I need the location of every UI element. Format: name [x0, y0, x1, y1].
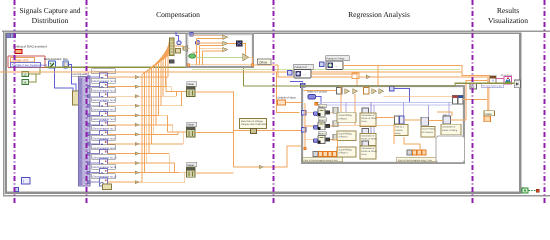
wire split-signals to icon no.5 — [90, 114, 100, 116]
wire row no.9 continue — [140, 153, 150, 155]
case wire h2 — [197, 38, 223, 40]
svg-text:Outputs after Calibration: Outputs after Calibration — [241, 123, 268, 126]
wire row no.5 continue — [140, 114, 159, 116]
inter-section bus v1 — [277, 72, 300, 112]
label Points in Y Axis — [326, 56, 350, 61]
bus drop no.11 — [179, 171, 181, 173]
Points in Y input — [320, 62, 325, 67]
case arrowhead 1 — [223, 35, 228, 39]
wire electromagnet no.4 output — [108, 105, 136, 107]
Row 3 blue glyph — [314, 139, 318, 143]
wire row no.1 continue — [140, 76, 168, 78]
wire split-signals to icon no.8 — [90, 143, 100, 145]
wire default value — [286, 102, 303, 104]
wire electromagnet no.1 output — [108, 76, 136, 78]
riser wire no.1 — [167, 58, 169, 78]
main loop frame bottom edge — [5, 192, 521, 194]
section divider line 4 — [472, 0, 474, 205]
svg-text:of Columns: of Columns — [422, 131, 434, 134]
default value constant — [278, 100, 286, 105]
riser wire no.6 — [155, 65, 157, 125]
bus feed no.7 — [178, 131, 187, 133]
outer frame left edge — [3, 31, 5, 197]
green constant 1 — [22, 72, 29, 77]
bus feed no.6 — [173, 131, 187, 133]
label Raw Data of Voltage Outputs after Calibration — [240, 119, 268, 129]
wire electromagnet no.2 output — [108, 86, 136, 88]
label Curve Fitting of Columns — [421, 127, 435, 138]
fan diagonal no.10 — [147, 52, 170, 72]
label Calculation of Points on Fitting Curve 2 — [360, 134, 377, 146]
coercion arrowhead no.4 — [135, 104, 140, 107]
Points in Y block — [326, 61, 343, 70]
convert-dynamic-data icon no.4 — [100, 102, 108, 110]
order of function constant — [308, 95, 316, 100]
wire DAQ to split signals blue — [55, 68, 74, 92]
lavender drop x374 — [373, 105, 375, 140]
Row 2 fit node — [333, 121, 338, 127]
svg-text:Order of Function: Order of Function — [307, 91, 328, 94]
coercion arrowhead no.12 — [135, 180, 140, 183]
wire points-in-y out — [343, 66, 462, 76]
case dark icon — [236, 41, 242, 47]
case wire arrows to icon — [228, 42, 236, 44]
wire row no.2 continue — [140, 86, 166, 88]
label Electromagnet no.1 — [92, 69, 116, 74]
bus wire right no.1 — [140, 76, 167, 78]
DAQmx task wire overlay — [244, 83, 515, 86]
wire mean 2 out — [195, 132, 234, 134]
riser wire no.12 — [141, 75, 143, 183]
coercion arrowhead no.10 — [135, 161, 140, 164]
wire points-in-x out — [311, 74, 357, 86]
convert-dynamic-data icon no.10 — [100, 159, 108, 167]
svg-text:Points in X: Points in X — [295, 66, 308, 69]
riser wire no.7 — [153, 67, 155, 135]
split signals input icon — [73, 91, 80, 105]
case wire h1 — [192, 35, 223, 37]
wire split-signals to icon no.1 — [90, 76, 100, 78]
wire split-signals to icon no.2 — [90, 86, 100, 88]
top blue node — [390, 87, 395, 92]
raw data node icon — [251, 129, 257, 134]
case out wire — [249, 57, 278, 65]
orange junction node — [315, 102, 318, 105]
wire Row 3 out — [330, 139, 333, 141]
bus drop no.1 — [165, 77, 167, 91]
bus wire right no.6 — [140, 124, 173, 126]
case blue glyph — [196, 40, 200, 44]
wire top blue — [394, 89, 410, 104]
wire array X up — [333, 140, 338, 152]
bus feed no.11 — [180, 171, 187, 173]
Row 1 blue glyph — [314, 112, 318, 116]
reg wire h mid2 — [376, 117, 395, 119]
Row 3 icon — [318, 136, 325, 144]
riser wire no.10 — [146, 71, 148, 163]
svg-text:Curve Fitting: Curve Fitting — [422, 128, 435, 131]
wire Row 1 out — [330, 111, 333, 113]
coercion arrowhead no.2 — [135, 85, 140, 88]
section divider overlay 2 — [86, 0, 88, 205]
lavender drop x428 — [428, 105, 430, 118]
tunnel square 1 — [7, 34, 11, 38]
wire funnel right — [188, 48, 190, 50]
bus bottom arrowhead — [259, 165, 264, 169]
outer frame bottom edge — [3, 195, 550, 197]
svg-text:Signals Capture and: Signals Capture and — [19, 6, 80, 15]
split signals column separators — [79, 77, 90, 177]
wire row no.12 continue — [140, 181, 143, 183]
pick-column icon pair — [395, 116, 405, 124]
lavender riser x457 — [456, 96, 458, 102]
svg-text:Mean: Mean — [188, 164, 195, 167]
svg-text:Data: Data — [486, 112, 492, 116]
top node triangle 1 — [345, 89, 350, 95]
label Row 3 — [318, 132, 326, 136]
wire split-signals to icon no.4 — [90, 105, 100, 107]
wire stop dashed — [528, 190, 536, 192]
svg-text:Calculation of: Calculation of — [361, 135, 375, 138]
iteration terminal — [22, 178, 31, 185]
offset LED green — [189, 51, 198, 58]
Row 1 fit node — [333, 107, 338, 113]
label Electromagnet no.8 — [92, 135, 116, 140]
wire split-signals to icon no.3 — [90, 95, 100, 97]
label Electromagnet no.10 — [92, 154, 117, 159]
case wire v3 — [202, 51, 204, 65]
wire electromagnet no.5 output — [108, 114, 136, 116]
calc icon row 3 — [362, 141, 369, 147]
label Curve Fitting of Row 1 — [337, 113, 356, 123]
reg wire h mid — [330, 125, 395, 127]
label Electromagnet no.3 — [92, 88, 116, 93]
svg-text:Offset: Offset — [259, 60, 268, 64]
bus drop no.5 — [167, 115, 169, 132]
reg orange vert right — [393, 125, 395, 144]
wire top orange v1 — [340, 86, 342, 112]
split signals output terminals — [87, 76, 90, 184]
coercion arrowhead no.1 — [135, 75, 140, 78]
array Y elements — [413, 150, 426, 155]
local variable red frame — [8, 56, 45, 68]
coercion arrowhead no.11 — [135, 171, 140, 174]
riser wire no.3 — [162, 61, 164, 97]
blue node A — [177, 41, 181, 45]
Points in X input — [288, 71, 293, 76]
bus bottom wire — [234, 166, 260, 168]
split signals column left stripe — [79, 78, 82, 185]
main loop frame right edge — [519, 33, 521, 194]
Row 2 icon — [318, 122, 325, 130]
bus wire right no.9 — [140, 153, 170, 155]
top node icon 2 — [364, 88, 370, 95]
label Electromagnet no.9 — [92, 145, 116, 150]
array X elements — [319, 152, 337, 157]
Row 1 dark node — [326, 111, 330, 114]
fan diagonal no.1 — [168, 40, 170, 58]
wire pick to fit — [404, 119, 421, 121]
top node triangle 2 — [353, 89, 358, 95]
label Curve Fitting of Row 3 — [337, 147, 356, 157]
label blue mesh matrix — [481, 84, 504, 88]
outer frame top edge — [2, 30, 550, 32]
case bottom tunnel right — [251, 64, 254, 67]
case wire v2 — [199, 46, 201, 65]
coercion arrowhead no.6 — [135, 123, 140, 126]
svg-text:Compensation: Compensation — [156, 10, 200, 19]
svg-text:Point of Electromagnets along: Point of Electromagnets along Y Axis — [398, 159, 432, 162]
E3 icon — [470, 84, 477, 90]
section divider overlay 3 — [273, 0, 275, 205]
boolean wire oval to triangle — [196, 57, 243, 59]
reg feed h2 — [305, 125, 318, 127]
title Results Visualization — [488, 6, 528, 25]
case wire h6 — [203, 50, 223, 52]
wire order fn — [316, 97, 322, 105]
bus drop no.12 — [184, 172, 186, 182]
bus feed no.1 — [166, 91, 187, 93]
label Row 1 — [318, 104, 326, 108]
riser wire no.2 — [165, 59, 167, 87]
riser wire no.11 — [143, 73, 145, 173]
svg-text:⋯: ⋯ — [303, 73, 307, 77]
convert-dynamic-data icon no.12 — [100, 178, 108, 186]
bus drop no.9 — [168, 154, 170, 173]
coercion arrowhead no.3 — [135, 95, 140, 98]
section divider line 1 — [14, 0, 16, 205]
svg-text:Calculation of: Calculation of — [361, 114, 375, 117]
svg-text:Row 1: Row 1 — [319, 105, 326, 108]
array Y index box — [407, 150, 412, 155]
3D Surface icon — [504, 77, 512, 84]
label Calculation of Points of Fitting — [441, 124, 461, 134]
calc points fitting icon — [443, 113, 451, 124]
convert-dynamic-data icon no.9 — [100, 150, 108, 158]
svg-text:along: along — [395, 132, 401, 135]
wire row no.7 continue — [140, 133, 154, 135]
fan diagonal no.8 — [151, 49, 169, 68]
top node triangle 3 — [372, 89, 377, 95]
bus feed no.4 — [182, 91, 187, 93]
svg-text:Mean: Mean — [188, 83, 195, 86]
label Electromagnet no.11 — [92, 164, 117, 169]
wire electromagnet no.7 output — [108, 133, 136, 135]
title Signals Capture and Distribution — [19, 6, 80, 25]
wire into mesh mid — [466, 81, 490, 121]
wire split-signals to icon no.6 — [90, 124, 100, 126]
svg-text:of Row 3: of Row 3 — [339, 152, 349, 155]
Row 2 dark node — [326, 124, 330, 127]
svg-text:Row 3: Row 3 — [319, 133, 326, 136]
bus drop no.7 — [177, 132, 179, 134]
array X index box — [313, 152, 318, 157]
Flat express VI icon — [63, 61, 69, 68]
reg feed h1 — [305, 111, 318, 113]
bus drop no.3 — [175, 92, 177, 97]
fan diagonal no.9 — [149, 50, 169, 70]
convert-dynamic-data icon no.7 — [100, 130, 108, 138]
bus drop no.8 — [182, 132, 184, 144]
bus drop no.6 — [172, 125, 174, 132]
label test Signals — [72, 72, 89, 77]
boolean wire faint — [192, 68, 460, 70]
wire calc up right — [451, 119, 467, 121]
mesh builder icon — [490, 76, 496, 84]
bus feed no.12 — [185, 171, 187, 173]
wire B arrowhead — [366, 75, 371, 79]
wire row no.8 continue — [140, 143, 152, 145]
long orange wire B — [278, 65, 490, 77]
wire constant2 up — [29, 75, 37, 83]
label Electromagnet no.6 — [92, 116, 116, 121]
wire icon pair out — [463, 99, 488, 101]
lavender drop x346 — [345, 102, 347, 112]
wire row no.3 continue — [140, 95, 164, 97]
wire electromagnet no.12 output — [108, 181, 136, 183]
array-to-cluster funnel — [183, 46, 188, 52]
section divider overlay 4 — [472, 0, 474, 205]
bus wire right no.12 — [140, 181, 185, 183]
svg-text:12: 12 — [23, 73, 27, 77]
stop sign terminal — [522, 188, 528, 193]
build array index box — [169, 60, 174, 64]
bus wire right no.4 — [140, 105, 182, 107]
label Pick as a Column along — [394, 125, 408, 136]
label Calculation of Points on Fitting Curve 3 — [360, 146, 377, 159]
label Data — [484, 111, 495, 116]
sample info label blue — [11, 63, 48, 68]
svg-text:Column: Column — [395, 129, 403, 132]
case wire v1 — [196, 39, 198, 65]
mean bus vertical — [233, 92, 235, 168]
section divider line 3 — [273, 0, 275, 205]
bus wire right no.2 — [140, 86, 172, 88]
long orange wire A — [0, 71, 462, 73]
svg-text:i: i — [23, 179, 24, 184]
lavender wire 1 — [318, 101, 457, 103]
Row 3 dark node — [326, 138, 330, 141]
pink wire to 3D surface — [496, 77, 504, 79]
svg-text:1k: 1k — [23, 81, 27, 85]
bus feed no.2 — [171, 91, 186, 93]
bus feed no.5 — [168, 131, 187, 133]
riser wire no.9 — [148, 70, 150, 154]
raw data wire right — [234, 130, 303, 132]
riser wire no.8 — [150, 68, 152, 144]
svg-text:Point of Electromagnets along: Point of Electromagnets along X Axis — [304, 159, 338, 162]
lavender drop x371 — [370, 102, 372, 146]
label Electromagnet no.4 — [92, 97, 116, 102]
wire row no.4 continue — [140, 105, 161, 107]
regression frame inner — [304, 88, 462, 161]
fan diagonal no.3 — [163, 42, 169, 60]
case arrowhead 2 — [223, 41, 228, 45]
section divider overlay 5 — [544, 0, 546, 205]
convert-dynamic-data icon no.11 — [100, 169, 108, 177]
wire mean 3 out — [195, 172, 234, 174]
top node triangle 4 — [379, 89, 384, 95]
convert-dynamic-data icon no.3 — [100, 92, 108, 100]
build array output wire — [174, 46, 183, 49]
svg-text:Mean: Mean — [188, 124, 195, 127]
wire top orange h — [384, 96, 453, 98]
Row 3 fit node — [333, 134, 338, 140]
wire electromagnet no.11 output — [108, 172, 136, 174]
wire electromagnet no.8 output — [108, 143, 136, 145]
riser wire no.5 — [157, 64, 159, 116]
wire electromagnet no.6 output — [108, 124, 136, 126]
DAQmx task wire mid horizontal — [244, 83, 515, 86]
riser wire no.4 — [160, 62, 162, 106]
Mean block 1 — [187, 87, 196, 97]
svg-text:Curve Fitting: Curve Fitting — [339, 148, 353, 151]
coercion arrowhead no.8 — [135, 142, 140, 145]
case compound triangle — [243, 54, 249, 61]
label Point of Electromagnets along Y Axis — [397, 157, 442, 162]
wire row no.11 continue — [140, 172, 145, 174]
label Points in X — [294, 64, 314, 69]
bus bottom wire 2 — [264, 146, 303, 167]
DAQmx task wire down segment — [243, 67, 245, 86]
svg-text:Row 2: Row 2 — [319, 119, 326, 122]
bus wire right no.8 — [140, 143, 184, 145]
calc icon row 2 — [362, 129, 369, 135]
DAQmx task wire long horizontal — [45, 66, 244, 68]
svg-text:Points on Fitting: Points on Fitting — [361, 138, 377, 141]
svg-text:Regression Analysis: Regression Analysis — [348, 10, 410, 19]
label Electromagnet no.7 — [92, 126, 116, 131]
case wire icon out — [242, 43, 246, 54]
orange descent x378 — [377, 66, 379, 87]
wire top orange v2 — [354, 94, 356, 125]
wire B inline box — [352, 73, 359, 79]
fan diagonal no.2 — [166, 41, 170, 59]
label Electromagnet no.2 — [92, 78, 116, 83]
bus feed no.10 — [174, 171, 186, 173]
bus drop no.2 — [170, 87, 172, 92]
fan diagonal no.12 — [142, 54, 170, 74]
coercion arrowhead no.7 — [135, 133, 140, 136]
DAQ settings constant icon — [15, 50, 22, 54]
section divider overlay 1 — [14, 0, 16, 205]
bus feed no.8 — [183, 131, 186, 133]
green constant 2 — [22, 80, 29, 85]
wire split-signals to icon no.9 — [90, 153, 100, 155]
thick 2D-array wire vertical — [487, 77, 490, 117]
convert-dynamic-data icon no.8 — [100, 140, 108, 148]
bus wire right no.3 — [140, 95, 177, 97]
wire split-signals to icon no.12 — [90, 181, 100, 183]
fan diagonal no.5 — [158, 45, 169, 64]
blue wire top compensation — [176, 32, 179, 42]
svg-text:Points on Fitting: Points on Fitting — [361, 150, 377, 153]
blue node on olive — [301, 83, 306, 88]
Mean block 2 — [187, 127, 196, 137]
bus feed no.9 — [169, 171, 186, 173]
reg feed v — [304, 103, 306, 149]
wire mean 1 out — [195, 91, 234, 93]
Row 2 blue glyph — [314, 125, 318, 129]
split signals expanded column — [79, 77, 91, 186]
wire split-signals to icon no.11 — [90, 172, 100, 174]
wire electromagnet no.3 output — [108, 95, 136, 97]
coercion arrowhead no.5 — [135, 114, 140, 117]
svg-text:Points of Fitting: Points of Fitting — [442, 129, 458, 132]
Row 1 icon — [318, 109, 325, 117]
coercion arrowhead no.9 — [135, 152, 140, 155]
label Point of Electromagnets along X Axis — [303, 157, 343, 162]
